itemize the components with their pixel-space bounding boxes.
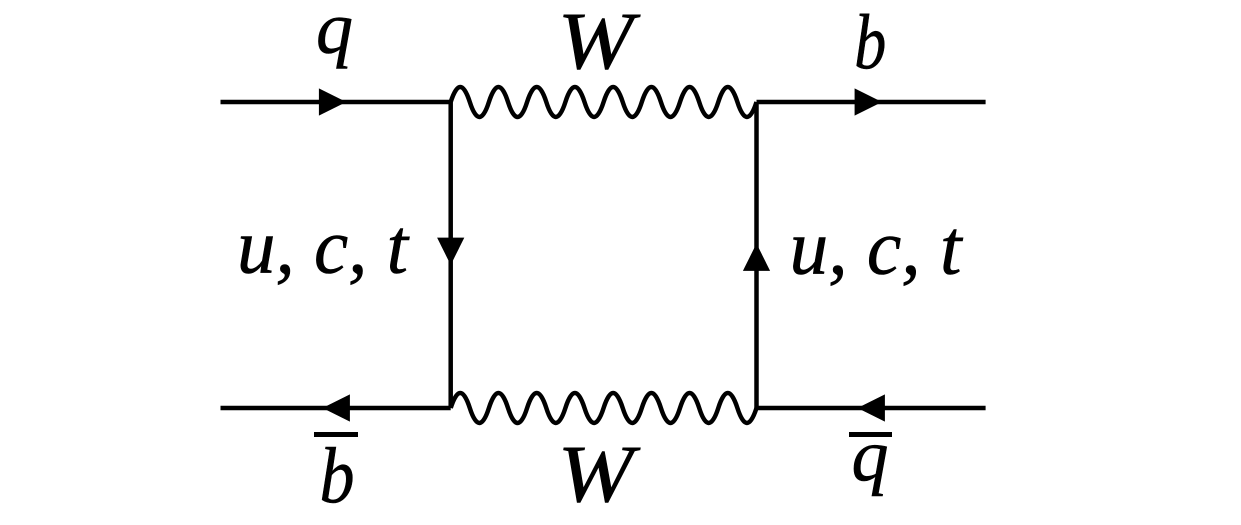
label b (top-right) <box>854 0 886 85</box>
label q-bar (bottom-right): overline <box>849 432 892 437</box>
label u,c,t (left) <box>237 203 410 290</box>
label q (top-left) <box>316 0 353 70</box>
label q-bar (bottom-right): letter q <box>852 415 889 497</box>
internal quark line u,c,t (left vertical) <box>448 102 453 408</box>
W boson propagator (top wavy line) <box>451 87 757 117</box>
arrow on q-bar line (leftward) <box>858 394 885 421</box>
arrow on b-bar line (leftward) <box>323 394 350 421</box>
fermion line b (top-right external) <box>757 100 986 105</box>
svg-text:W: W <box>558 0 641 87</box>
arrow on q line (rightward) <box>319 88 346 115</box>
label b-bar (bottom-left): letter b <box>320 433 355 520</box>
svg-text:b: b <box>320 433 355 520</box>
svg-text:q: q <box>852 415 889 497</box>
svg-text:u, c, t: u, c, t <box>237 203 410 290</box>
internal quark line u,c,t (right vertical) <box>754 102 759 408</box>
label b-bar (bottom-left): overline <box>314 432 358 437</box>
arrow on right internal line (upward) <box>743 244 770 271</box>
W boson propagator (bottom wavy line) <box>451 393 757 423</box>
fermion line b-bar (bottom-left external) <box>221 406 451 411</box>
fermion line q (top-left external) <box>221 100 451 105</box>
svg-text:q: q <box>316 0 353 70</box>
svg-text:u, c, t: u, c, t <box>790 204 964 291</box>
label W (bottom) <box>558 429 641 520</box>
fermion line q-bar (bottom-right external) <box>757 406 986 411</box>
label W (top) <box>558 0 641 87</box>
arrow on b line (rightward) <box>855 88 882 115</box>
arrow on left internal line (downward) <box>437 238 464 265</box>
label u,c,t (right) <box>790 204 964 291</box>
svg-text:W: W <box>558 429 641 520</box>
svg-text:b: b <box>854 0 886 85</box>
